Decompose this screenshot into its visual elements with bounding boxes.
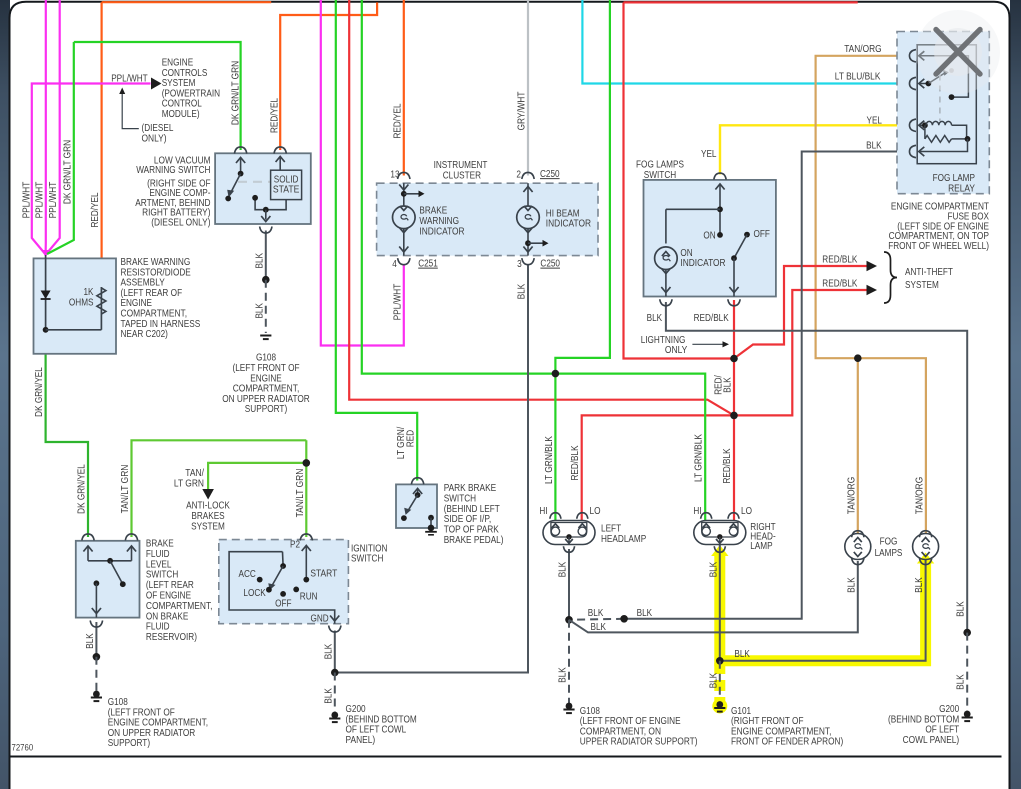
node diode-resistor bbox=[43, 327, 49, 333]
ground G101 bbox=[716, 701, 723, 708]
svg-text:RED/BLK: RED/BLK bbox=[822, 279, 857, 290]
fog lamps switch box bbox=[644, 180, 776, 297]
svg-text:LEVEL: LEVEL bbox=[146, 559, 172, 570]
svg-text:SWITCH: SWITCH bbox=[444, 493, 476, 504]
svg-text:TOP OF PARK: TOP OF PARK bbox=[444, 525, 499, 536]
svg-text:YEL: YEL bbox=[701, 149, 717, 160]
diesel only reference arrow (PCM) bbox=[122, 92, 139, 129]
ignition position contacts bbox=[257, 577, 263, 583]
svg-text:HEADLAMP: HEADLAMP bbox=[601, 534, 646, 545]
svg-text:4: 4 bbox=[392, 259, 397, 270]
svg-text:BLK: BLK bbox=[956, 674, 967, 690]
svg-text:BLK: BLK bbox=[254, 253, 265, 269]
svg-text:START: START bbox=[310, 569, 337, 580]
svg-text:TAN/: TAN/ bbox=[185, 468, 204, 479]
svg-text:LT BLU/BLK: LT BLU/BLK bbox=[835, 72, 881, 83]
svg-text:BRAKE PEDAL): BRAKE PEDAL) bbox=[444, 535, 504, 546]
relay pin receptacles bbox=[909, 50, 916, 62]
svg-text:ONLY): ONLY) bbox=[142, 134, 167, 145]
anti-theft arrowheads bbox=[867, 261, 878, 271]
svg-text:LT GRN/BLK: LT GRN/BLK bbox=[544, 436, 555, 484]
svg-text:BLK: BLK bbox=[588, 608, 604, 619]
low vacuum warning switch U-LVWS box bbox=[215, 153, 311, 224]
svg-text:SWITCH: SWITCH bbox=[644, 170, 676, 181]
svg-text:HI: HI bbox=[693, 506, 701, 517]
svg-text:DK GRN/YEL: DK GRN/YEL bbox=[77, 464, 88, 514]
anti-theft brace bbox=[884, 252, 897, 303]
wire DK GRN/LT GRN from top to low vacuum switch and converging branch bbox=[47, 42, 74, 254]
wire PPL/WHT #3 with horizontal branch to PCM arrow bbox=[32, 84, 151, 255]
svg-text:BLK: BLK bbox=[846, 577, 857, 593]
lightning only arrow bbox=[692, 343, 722, 345]
svg-text:PPL/WHT: PPL/WHT bbox=[392, 284, 403, 321]
wire YEL fog lamp relay to fog lamps switch bbox=[720, 125, 912, 174]
svg-text:RED/YEL: RED/YEL bbox=[392, 103, 403, 138]
wire PPL/WHT #2 vertical converging bbox=[46, 0, 60, 254]
OFF terminal and blade bbox=[744, 232, 750, 238]
svg-text:SYSTEM: SYSTEM bbox=[905, 280, 939, 291]
wire RED/BLK top horizontal along top border bbox=[624, 1, 858, 3]
left fog lamp bbox=[852, 531, 864, 538]
svg-text:13: 13 bbox=[390, 170, 399, 181]
svg-text:RED/YEL: RED/YEL bbox=[270, 98, 281, 133]
low vacuum switch internals bbox=[236, 158, 245, 164]
svg-text:(BEHIND LEFT: (BEHIND LEFT bbox=[444, 504, 500, 515]
wire TAN/LT GRN horizontal bbox=[132, 440, 307, 537]
svg-text:BLK: BLK bbox=[591, 622, 607, 633]
wire LT GRN/BLK horizontal to right headlamp HI bbox=[362, 0, 705, 521]
ground G200 (left, behind cowl panel) bbox=[331, 712, 338, 719]
wire RED/YEL jog to solid state bbox=[280, 2, 377, 150]
wire BLK left headlamp to junction bbox=[568, 549, 570, 620]
ground G108 (left front) bbox=[93, 691, 100, 698]
svg-text:(DIESEL: (DIESEL bbox=[142, 123, 174, 134]
svg-text:BLK: BLK bbox=[558, 667, 569, 683]
svg-text:PPL/WHT: PPL/WHT bbox=[48, 182, 59, 219]
svg-text:TAN/ORG: TAN/ORG bbox=[914, 477, 925, 515]
svg-text:IGNITION: IGNITION bbox=[351, 543, 388, 554]
svg-text:PPL/WHT: PPL/WHT bbox=[21, 182, 32, 219]
svg-text:BLK: BLK bbox=[637, 608, 653, 619]
relay dashed actuation bbox=[939, 75, 941, 122]
svg-text:INDICATOR: INDICATOR bbox=[680, 258, 725, 269]
wire RED/BLK to anti-theft (upper) bbox=[734, 266, 867, 359]
wire RED/BLK junction to junction 2 bbox=[733, 359, 735, 416]
wire GRY/WHT to instrument cluster pin 2 bbox=[527, 0, 529, 176]
fog lamp relay K1 box bbox=[917, 45, 976, 164]
ON terminal bbox=[717, 232, 723, 238]
svg-text:ON BRAKE: ON BRAKE bbox=[146, 611, 189, 622]
wire RED/BLK long vertical from top to lighting junction bbox=[624, 2, 735, 358]
right sidebar band bbox=[1010, 0, 1021, 789]
junction RED/BLK lighting node bbox=[730, 355, 738, 363]
relay contact from pin 30 bbox=[919, 56, 969, 97]
svg-text:GRY/WHT: GRY/WHT bbox=[517, 92, 528, 131]
junction TAN/LT GRN bbox=[303, 459, 311, 467]
wire BLK instrument cluster pin 3 to G200 junction bbox=[335, 265, 528, 673]
wire RED/BLK from fog switch OFF terminal down bbox=[733, 300, 735, 359]
svg-text:WARNING SWITCH: WARNING SWITCH bbox=[136, 165, 210, 176]
svg-text:LT GRN/BLK: LT GRN/BLK bbox=[694, 434, 705, 482]
svg-text:DK GRN/YEL: DK GRN/YEL bbox=[34, 367, 45, 417]
svg-text:FOG LAMP: FOG LAMP bbox=[933, 173, 976, 184]
svg-text:RED/BLK: RED/BLK bbox=[570, 445, 581, 480]
right fog lamp bbox=[919, 531, 931, 538]
svg-text:BLK: BLK bbox=[647, 313, 663, 324]
svg-text:BLK: BLK bbox=[323, 688, 334, 704]
wire BLK from low vacuum switch to ground bbox=[265, 231, 267, 280]
svg-text:PANEL): PANEL) bbox=[346, 735, 376, 746]
wire RED/BLK to right headlamp LO bbox=[733, 415, 735, 521]
wire RED/BLK long horizontal from top-left to junction 2 bbox=[349, 0, 734, 415]
relay pin 85 line bbox=[919, 139, 968, 152]
fog switch internals bbox=[715, 184, 724, 190]
park brake internal ground bbox=[428, 515, 434, 521]
relay coil bbox=[919, 124, 926, 126]
svg-text:DK GRN/LT GRN: DK GRN/LT GRN bbox=[62, 140, 73, 204]
svg-text:LO: LO bbox=[590, 506, 601, 517]
svg-text:OF ENGINE: OF ENGINE bbox=[146, 591, 191, 602]
svg-text:DK GRN/LT GRN: DK GRN/LT GRN bbox=[230, 61, 241, 125]
svg-text:RED: RED bbox=[406, 430, 417, 447]
svg-text:GND: GND bbox=[311, 613, 329, 624]
ground G108 (upper radiator support) bbox=[566, 703, 573, 710]
svg-text:LO: LO bbox=[741, 506, 752, 517]
wire LT GRN/BLK branch to left headlamp HI bbox=[554, 374, 556, 521]
svg-text:LAMPS: LAMPS bbox=[875, 548, 903, 559]
anti-lock brakes arrowhead bbox=[202, 489, 214, 500]
relay common and blade bbox=[919, 83, 929, 85]
wire BLK fog lamp relay to headlamp ground junction bbox=[624, 152, 911, 619]
brake fluid level switch box bbox=[76, 541, 140, 618]
junction RED/BLK headlamp node bbox=[730, 412, 738, 420]
dashed actuation line bbox=[238, 181, 271, 183]
junction TAN/ORG bbox=[854, 354, 862, 362]
diode D1 bbox=[45, 255, 47, 330]
svg-text:BLK: BLK bbox=[723, 377, 734, 393]
svg-text:BLK: BLK bbox=[734, 649, 750, 660]
svg-text:RED/BLK: RED/BLK bbox=[822, 255, 857, 266]
svg-text:SIDE OF I/P,: SIDE OF I/P, bbox=[444, 514, 492, 525]
svg-text:ANTI-LOCK: ANTI-LOCK bbox=[186, 501, 230, 512]
svg-text:P2: P2 bbox=[290, 539, 300, 550]
svg-text:SYSTEM: SYSTEM bbox=[191, 521, 225, 532]
svg-text:TAN/ORG: TAN/ORG bbox=[844, 44, 882, 55]
relay resistor bbox=[924, 125, 926, 139]
relay pin arrows bbox=[919, 51, 925, 60]
wire LT GRN/BLK jog from top bbox=[555, 0, 610, 374]
svg-text:RESERVOIR): RESERVOIR) bbox=[146, 632, 197, 643]
left headlamp bbox=[543, 521, 595, 545]
svg-text:BRAKE: BRAKE bbox=[146, 539, 174, 550]
brake warning indicator lamp bbox=[403, 183, 405, 206]
svg-text:ANTI-THEFT: ANTI-THEFT bbox=[905, 267, 953, 278]
wire BLK brake fluid switch to ground G108 bbox=[95, 622, 97, 657]
instrument cluster box bbox=[377, 183, 598, 255]
svg-text:BLK: BLK bbox=[517, 283, 528, 299]
wire LT BLU/BLK from top to fog lamp relay bbox=[582, 0, 911, 84]
svg-text:COWL PANEL): COWL PANEL) bbox=[903, 735, 960, 746]
resistor R1 1K OHMS bbox=[100, 287, 102, 330]
highlighted ground path (yellow) of right headlamp bbox=[711, 545, 728, 556]
solid state box U1 bbox=[271, 170, 302, 199]
right headlamp bbox=[694, 521, 746, 545]
svg-text:BLK: BLK bbox=[956, 601, 967, 617]
wire TAN/ORG from relay to fog lamps bbox=[816, 56, 926, 534]
svg-text:BLK: BLK bbox=[866, 141, 882, 152]
svg-text:PPL/WHT: PPL/WHT bbox=[111, 73, 148, 84]
svg-text:SUPPORT): SUPPORT) bbox=[108, 738, 150, 749]
svg-text:BLK: BLK bbox=[708, 561, 719, 577]
svg-text:BLK: BLK bbox=[85, 633, 96, 649]
engine compartment fuse box (dashed) bbox=[897, 32, 989, 194]
wire BLK dashed to ground G101 bbox=[719, 661, 721, 704]
svg-text:LOCK: LOCK bbox=[243, 588, 266, 599]
svg-text:OHMS: OHMS bbox=[69, 298, 94, 309]
svg-text:RED/BLK: RED/BLK bbox=[722, 448, 733, 483]
svg-text:RELAY: RELAY bbox=[948, 183, 975, 194]
wire RED/YEL top-left horizontal along top border bbox=[102, 1, 272, 3]
svg-text:BLK: BLK bbox=[914, 577, 925, 593]
svg-text:BRAKES: BRAKES bbox=[191, 511, 225, 522]
svg-text:YEL: YEL bbox=[867, 115, 883, 126]
close button X bbox=[916, 10, 1000, 94]
svg-text:3: 3 bbox=[517, 259, 522, 270]
svg-text:INDICATOR: INDICATOR bbox=[419, 226, 464, 237]
solid state output to BLK pin bbox=[255, 198, 286, 210]
ignition switch box (dashed) bbox=[219, 540, 349, 624]
svg-text:FRONT OF FENDER APRON): FRONT OF FENDER APRON) bbox=[731, 737, 843, 748]
svg-text:INDICATOR: INDICATOR bbox=[546, 219, 591, 230]
svg-text:BLK: BLK bbox=[558, 561, 569, 577]
svg-text:INSTRUMENT: INSTRUMENT bbox=[434, 160, 488, 171]
svg-text:FLUID: FLUID bbox=[146, 549, 170, 560]
svg-text:TAN/ORG: TAN/ORG bbox=[846, 477, 857, 515]
svg-text:RED/BLK: RED/BLK bbox=[694, 313, 729, 324]
svg-text:HI: HI bbox=[539, 506, 547, 517]
junction LT GRN/BLK bbox=[552, 370, 560, 378]
hi beam indicator lamp bbox=[527, 183, 529, 206]
wire TAN/LT GRN to ignition switch P2 bbox=[305, 440, 307, 537]
wire BLK right headlamp ground (over highlight) bbox=[720, 545, 926, 661]
svg-text:ONLY: ONLY bbox=[665, 345, 688, 356]
svg-text:RED/YEL: RED/YEL bbox=[90, 192, 101, 227]
svg-text:TAN/LT GRN: TAN/LT GRN bbox=[295, 469, 306, 518]
ground G108 (low vacuum) bbox=[260, 335, 271, 337]
svg-text:FRONT OF WHEEL WELL): FRONT OF WHEEL WELL) bbox=[888, 241, 989, 252]
svg-text:72760: 72760 bbox=[12, 743, 34, 754]
wire TAN/ORG branch to left fog lamp bbox=[857, 358, 859, 533]
arrowheads of converging PPL/WHT wires at node bbox=[42, 250, 49, 258]
svg-text:COMPARTMENT,: COMPARTMENT, bbox=[146, 601, 213, 612]
wire DK GRN/YEL from resistor box to brake fluid level switch bbox=[46, 354, 88, 537]
svg-text:FOG: FOG bbox=[880, 537, 898, 548]
svg-text:(LEFT REAR: (LEFT REAR bbox=[146, 580, 194, 591]
ground G200 (right, behind cowl panel) bbox=[964, 711, 971, 718]
svg-text:SWITCH: SWITCH bbox=[351, 554, 383, 565]
park brake switch box bbox=[396, 484, 437, 528]
brake warning resistor/diode assembly box bbox=[34, 258, 117, 353]
svg-text:LAMP: LAMP bbox=[750, 541, 773, 552]
svg-text:1K: 1K bbox=[84, 287, 94, 298]
wire BLK junction to left fog lamp bbox=[569, 561, 858, 632]
wire BLK dashed segment between junctions bbox=[569, 619, 624, 620]
svg-text:UPPER RADIATOR SUPPORT): UPPER RADIATOR SUPPORT) bbox=[580, 737, 698, 748]
PPL/WHT arrow into engine controls system bbox=[151, 78, 162, 90]
svg-text:OFF: OFF bbox=[754, 229, 770, 240]
svg-text:BLK: BLK bbox=[323, 643, 334, 659]
wire RED/YEL vertical to brake warning resistor bbox=[100, 2, 102, 287]
svg-text:NEAR C202): NEAR C202) bbox=[121, 329, 168, 340]
svg-text:OFF: OFF bbox=[275, 599, 291, 610]
wire BLK ignition switch GND bbox=[334, 631, 336, 673]
wire RED/YEL to instrument cluster pin 13 bbox=[403, 0, 405, 176]
svg-text:PARK BRAKE: PARK BRAKE bbox=[444, 483, 497, 494]
svg-text:SWITCH: SWITCH bbox=[146, 570, 178, 581]
svg-text:ACC: ACC bbox=[239, 569, 256, 580]
svg-text:ON: ON bbox=[703, 230, 715, 241]
ON indicator lamp bbox=[655, 247, 678, 270]
wire RED/BLK to anti-theft (lower) bbox=[734, 290, 867, 415]
wire PPL/WHT #1 vertical bbox=[44, 0, 46, 254]
svg-text:BLK: BLK bbox=[254, 303, 265, 319]
wire TAN/LT GRN branch to anti-lock brakes arrow bbox=[208, 463, 306, 489]
ignition inner contact plate bbox=[229, 552, 335, 624]
wire RED/BLK to left headlamp LO bbox=[582, 415, 734, 521]
svg-text:(DIESEL ONLY): (DIESEL ONLY) bbox=[151, 217, 210, 228]
svg-text:LEFT: LEFT bbox=[601, 524, 621, 535]
left sidebar band bbox=[0, 0, 10, 789]
svg-text:MODULE): MODULE) bbox=[162, 109, 200, 120]
svg-text:LT GRN: LT GRN bbox=[174, 478, 204, 489]
ground G101 yellow highlight bbox=[712, 699, 727, 714]
wire PPL/WHT from cluster pin 4 bbox=[321, 0, 404, 346]
svg-text:BLK: BLK bbox=[708, 672, 719, 688]
svg-text:SUPPORT): SUPPORT) bbox=[245, 404, 287, 415]
svg-text:CLUSTER: CLUSTER bbox=[443, 170, 481, 181]
svg-text:RUN: RUN bbox=[300, 592, 318, 603]
svg-text:2: 2 bbox=[516, 170, 521, 181]
wire BLK dashed to ground G108 (middle) bbox=[568, 620, 570, 706]
svg-text:PPL/WHT: PPL/WHT bbox=[34, 182, 45, 219]
svg-text:FLUID: FLUID bbox=[146, 622, 170, 633]
wire LT GRN/RED from top to park brake switch bbox=[336, 0, 417, 481]
bottom rule bbox=[10, 756, 1002, 758]
svg-text:TAN/LT GRN: TAN/LT GRN bbox=[120, 465, 131, 514]
svg-text:STATE: STATE bbox=[273, 185, 300, 196]
wire BLK fog lamps switch to right G200 bbox=[666, 302, 967, 633]
